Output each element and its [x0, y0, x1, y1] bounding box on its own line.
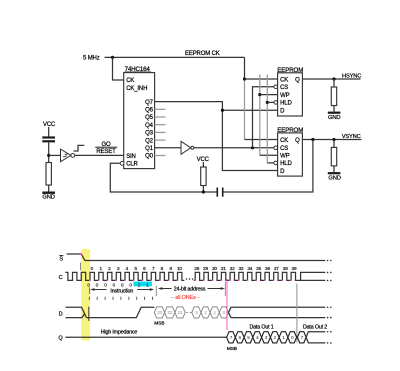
- svg-text:38: 38: [283, 266, 288, 271]
- svg-text:34: 34: [247, 266, 252, 271]
- node rising-edge symbol: [74, 145, 85, 151]
- svg-text:39: 39: [292, 266, 297, 271]
- junction at 5MHz branch: [111, 56, 114, 59]
- svg-text:D: D: [59, 312, 63, 318]
- pin bubble CS U4: [274, 146, 278, 150]
- wire stub Q4 unconnected: [155, 124, 166, 126]
- wire HSYNC output: [302, 78, 360, 80]
- svg-text:VSYNC: VSYNC: [342, 134, 361, 140]
- wire R4 to feedback net: [202, 186, 204, 193]
- node Q data out 1 bits 7..0: [227, 332, 236, 343]
- wire to resistor R2: [333, 79, 335, 87]
- wire inverter out to CS pins: [194, 147, 274, 149]
- svg-text:CK_INH: CK_INH: [126, 86, 147, 92]
- wire stub Q0 unconnected: [155, 155, 166, 157]
- wire R1 to GND: [48, 185, 50, 192]
- svg-text:GND: GND: [42, 195, 54, 201]
- node clock rising-edge markers (magenta): [89, 280, 91, 281]
- wire R2 to GND: [333, 106, 335, 112]
- svg-text:Q: Q: [295, 138, 300, 144]
- wire 5MHz to 74HC164 CK: [113, 57, 124, 80]
- junction EEPROM CK / CK1: [243, 77, 246, 80]
- IC U4 EEPROM body: [278, 133, 303, 176]
- svg-text:Q6: Q6: [145, 108, 154, 114]
- svg-text:EEPROM CK: EEPROM CK: [185, 51, 220, 57]
- svg-text:Q: Q: [295, 77, 300, 83]
- wire stub Q6 unconnected: [155, 108, 166, 110]
- svg-text:C: C: [59, 275, 63, 281]
- svg-text:33: 33: [238, 266, 243, 271]
- svg-text:28: 28: [194, 266, 199, 271]
- node clock break dots: [186, 278, 188, 280]
- inverter U3 (CS driver): [181, 141, 191, 154]
- pin bubble HLD U4: [274, 161, 278, 165]
- IC U1 74HC164 body: [124, 73, 155, 169]
- junction VSYNC/R pulldown: [332, 138, 335, 141]
- svg-text:SIN: SIN: [126, 154, 136, 160]
- svg-text:Q2: Q2: [145, 138, 154, 144]
- ground (VSYNC): [328, 172, 341, 174]
- svg-text:35: 35: [256, 266, 261, 271]
- svg-text:MSB: MSB: [154, 321, 164, 327]
- svg-text:GND: GND: [328, 176, 340, 182]
- wire Q7 to EEPROM D pins: [155, 102, 278, 171]
- pin bubble CS U2: [274, 85, 278, 89]
- wire waveform S (chip select): [67, 254, 326, 261]
- svg-text:CK: CK: [280, 77, 288, 83]
- wire VCC to C1: [48, 127, 50, 136]
- svg-text:HLD: HLD: [280, 101, 292, 107]
- node D ellipsis dashes: [186, 311, 191, 313]
- node instruction bits highlight (cyan): [134, 282, 152, 287]
- wire waveform C (clock, pulses 28-39): [194, 272, 326, 280]
- node separator bar address/data: [224, 282, 226, 296]
- svg-text:– all ONEs –: – all ONEs –: [171, 295, 201, 301]
- capacitor C1 (reset): [42, 136, 55, 138]
- svg-text:Q7: Q7: [145, 100, 154, 106]
- wire WP vertical net: [259, 75, 261, 156]
- svg-text:CS: CS: [280, 85, 288, 91]
- svg-text:Data Out 2: Data Out 2: [303, 324, 327, 330]
- wire EEPROM CK vertical: [244, 57, 246, 79]
- wire waveform D low/instruction: [86, 307, 154, 317]
- svg-text:31: 31: [221, 266, 226, 271]
- capacitor C2 (series, feedback): [222, 188, 224, 197]
- svg-text:Q3: Q3: [145, 131, 154, 137]
- svg-text:CLR: CLR: [126, 162, 138, 168]
- wire waveform D don't-care rails: [228, 307, 325, 317]
- wire waveform Q high-impedance line: [65, 336, 226, 338]
- wire to resistor R3: [333, 140, 335, 148]
- svg-text:WP: WP: [280, 93, 290, 99]
- svg-text:Instruction: Instruction: [110, 288, 133, 294]
- wire EEPROM CK net (top horizontal): [105, 56, 245, 58]
- wire to EEPROM2 CK: [245, 139, 278, 141]
- ground (HSYNC): [328, 112, 341, 114]
- svg-text:RESET: RESET: [96, 149, 116, 155]
- svg-text:Q5: Q5: [145, 115, 154, 121]
- IC U2 EEPROM body: [278, 73, 303, 116]
- wire waveform D rails and transition: [66, 307, 87, 317]
- svg-text:GND: GND: [328, 115, 340, 121]
- wire stub Q5 unconnected: [155, 116, 166, 118]
- wire stub Q2 unconnected: [155, 139, 166, 141]
- wire stub Q3 unconnected: [155, 131, 166, 133]
- svg-text:29: 29: [203, 266, 208, 271]
- node address-end marker line (magenta): [226, 279, 228, 330]
- wire to EEPROM2 HLD: [267, 162, 274, 164]
- wire to EEPROM1 WP: [260, 94, 278, 96]
- svg-text:Q0: Q0: [145, 154, 154, 160]
- junction VSYNC feedback: [311, 138, 314, 141]
- svg-text:10: 10: [177, 266, 182, 271]
- wire waveform C (clock, pulses 0-10): [65, 272, 184, 280]
- node yellow highlight band (start of transfer): [81, 249, 90, 341]
- node D address bit symbols 3..0: [192, 307, 201, 318]
- svg-text:High Impedance: High Impedance: [101, 330, 138, 336]
- inverter U5 (Schmitt reset): [61, 149, 71, 162]
- wire clock continues high rail: [301, 272, 326, 280]
- junction WP net: [258, 93, 261, 96]
- svg-text:MSB: MSB: [227, 346, 237, 352]
- svg-text:37: 37: [274, 266, 279, 271]
- junction CS net: [251, 146, 254, 149]
- wire VSYNC output: [302, 139, 361, 141]
- wire branch to EEPROM1 D: [222, 109, 277, 111]
- wire feedback to CLR: [110, 163, 216, 192]
- junction RC node: [47, 154, 50, 157]
- svg-text:24-bit address: 24-bit address: [174, 286, 206, 292]
- wire CS branch up to EEPROM1 CS: [253, 87, 274, 148]
- ground (reset RC): [42, 192, 55, 194]
- node D address bit symbols 23..21: [154, 307, 164, 318]
- wire RC node to inverter U5: [49, 154, 61, 156]
- node address one-bits ticks: [88, 297, 90, 300]
- junction R4/feedback: [202, 190, 205, 193]
- wire to EEPROM1 CK: [245, 78, 278, 80]
- svg-text:22: 22: [168, 310, 173, 315]
- svg-text:30: 30: [212, 266, 217, 271]
- node S fall marker (magenta): [80, 253, 82, 255]
- wire VCC to R4: [202, 162, 204, 167]
- svg-text:23: 23: [157, 310, 162, 315]
- wire C1 to node: [48, 142, 50, 162]
- junction HLD net: [266, 101, 269, 104]
- wire HLD vertical net: [266, 75, 268, 163]
- svg-text:VCC: VCC: [43, 122, 56, 128]
- node separator bar data out 1/2: [296, 284, 298, 343]
- wire R3 to GND: [333, 166, 335, 172]
- svg-text:36: 36: [265, 266, 270, 271]
- svg-text:5 MHz: 5 MHz: [83, 56, 100, 62]
- node Instruction span arrow: [89, 287, 91, 294]
- node 24-bit address span arrow: [162, 288, 221, 290]
- wire VSYNC Q down to feedback net: [224, 140, 313, 193]
- wire Q1 to inverter input: [155, 147, 181, 149]
- svg-text:HLD: HLD: [280, 161, 292, 167]
- svg-text:32: 32: [230, 266, 235, 271]
- wire to EEPROM1 HLD: [267, 101, 274, 103]
- resistor R2 (HSYNC load): [331, 87, 336, 106]
- pin bubble HLD U2: [274, 101, 278, 105]
- wire U5 out to SIN: [75, 154, 124, 156]
- svg-text:Data Out 1: Data Out 1: [249, 324, 273, 330]
- wire waveform Q rails after: [306, 332, 325, 343]
- svg-text:Q1: Q1: [145, 146, 154, 152]
- svg-text:S: S: [59, 256, 63, 262]
- svg-text:WP: WP: [280, 154, 290, 160]
- resistor R4 (CLR pull-up): [201, 167, 206, 186]
- svg-text:HSYNC: HSYNC: [342, 74, 361, 80]
- resistor R3 (VSYNC load): [331, 147, 336, 166]
- svg-text:CS: CS: [280, 146, 288, 152]
- svg-text:Q4: Q4: [145, 123, 154, 129]
- resistor R1 (reset): [46, 163, 51, 186]
- node separator bar instruction/address: [155, 286, 157, 297]
- svg-text:21: 21: [178, 310, 183, 315]
- wire to EEPROM2 WP: [260, 154, 278, 156]
- junction Q7/D net: [221, 109, 224, 112]
- svg-text:CK: CK: [280, 138, 288, 144]
- node Q data out 2 bit 7: [297, 332, 306, 343]
- junction HSYNC/R pullup: [332, 77, 335, 80]
- svg-text:CK: CK: [126, 78, 134, 84]
